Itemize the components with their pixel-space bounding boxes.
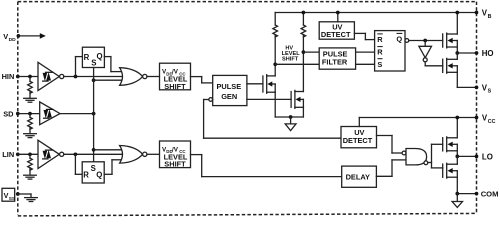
wire pulse gen output A: [247, 83, 263, 85]
svg-text:SD: SD: [3, 109, 14, 118]
svg-text:DETECT: DETECT: [321, 30, 351, 39]
node HIN resistor junction: [28, 75, 32, 79]
node left rail to pulse filter junction: [273, 62, 277, 66]
wire pulse filter to latch R2: [356, 51, 375, 53]
svg-text:SHIFT: SHIFT: [282, 57, 299, 63]
svg-text:S: S: [91, 164, 96, 173]
svg-text:LIN: LIN: [2, 150, 14, 159]
node common source junction: [289, 115, 293, 119]
node LIN pin dot: [16, 152, 20, 156]
wire HIN input: [18, 76, 38, 78]
wire NAND output to driver gates: [428, 144, 443, 168]
wire NOR1 output to level shift 1: [147, 76, 160, 78]
wire pulse filter to latch S: [356, 63, 375, 65]
svg-text:DETECT: DETECT: [343, 136, 373, 145]
ground VSS: [25, 198, 38, 202]
wire latch1 Q to NOR1: [104, 57, 124, 72]
wire VB rail: [275, 12, 476, 14]
wire right rail to pulse filter upper input: [303, 51, 319, 53]
NAND gate U10 low side: [402, 149, 428, 165]
ground SD: [24, 134, 37, 138]
hysteresis symbol U1: [42, 72, 53, 81]
svg-text:HIN: HIN: [2, 72, 15, 81]
wire VSS: [18, 194, 31, 197]
NOR gate U3 high side: [120, 68, 147, 86]
node SD pin dot: [16, 112, 20, 116]
wire UV detect low output to NAND: [377, 136, 403, 154]
ground level shift common: [285, 117, 296, 131]
svg-text:DD: DD: [9, 37, 17, 43]
label HV LEVEL SHIFT: [282, 45, 301, 62]
node COM junction: [455, 192, 459, 196]
node Q5 VCC junction: [455, 116, 459, 120]
wire LO: [457, 155, 476, 157]
pin VS dot: [475, 86, 479, 90]
wire level shift 2 to delay: [191, 155, 342, 177]
pin VCC label: [482, 114, 496, 125]
wire Q2 source to common: [302, 107, 304, 117]
wire Q5 drain to VCC: [456, 118, 458, 138]
resistor SD pulldown: [28, 114, 33, 134]
svg-text:SS: SS: [9, 196, 16, 202]
wire SD net to NOR1 input: [94, 79, 124, 81]
svg-text:GEN: GEN: [221, 92, 237, 101]
svg-text:Q: Q: [97, 52, 103, 61]
wire Q4 source to VS: [457, 72, 476, 87]
block UV detect low side: [341, 127, 377, 148]
transistor Q3 HO pull-up: [443, 33, 458, 48]
node HO junction: [455, 51, 459, 55]
pin VDD label: [3, 32, 16, 43]
wire pulse gen inhibit from UV detect low: [204, 100, 341, 139]
wire LIN buffer output row: [64, 153, 123, 155]
node SD resistor junction: [28, 112, 32, 116]
transistor Q1 HV level shift left: [263, 75, 275, 94]
wire Q5 source to LO: [456, 151, 458, 157]
wire Q6 drain to LO: [456, 156, 458, 164]
wire HO: [457, 52, 476, 54]
resistor HIN pulldown: [28, 77, 33, 98]
block pulse filter: [319, 48, 355, 69]
node LIN resistor junction: [28, 152, 32, 156]
node right rail to pulse filter junction: [302, 50, 306, 54]
schmitt buffer U1 HIN: [38, 62, 64, 90]
IC dashed border right: [476, 2, 478, 213]
svg-text:SHIFT: SHIFT: [164, 160, 186, 169]
svg-text:CC: CC: [488, 119, 496, 125]
node HIN buffer output junction: [74, 75, 78, 79]
svg-text:R: R: [377, 35, 383, 44]
latch U2 RSQ high side input: [82, 47, 104, 67]
wire NOR2 output to level shift 2: [147, 153, 160, 155]
svg-text:S: S: [377, 60, 382, 69]
svg-text:PULSE: PULSE: [217, 82, 242, 91]
node SD net to NOR1 junction: [92, 78, 96, 82]
wire latch2 Q to NOR2: [104, 160, 124, 175]
ground HIN: [24, 98, 37, 102]
node right rail VB junction: [302, 11, 306, 15]
wire LIN input: [18, 153, 38, 155]
svg-text:Q: Q: [396, 35, 402, 44]
svg-text:B: B: [488, 14, 492, 20]
wire level shift 1 to pulse gen: [191, 77, 213, 83]
svg-text:HO: HO: [482, 49, 494, 58]
block VDD/VCC level shift 2: [160, 141, 191, 169]
wire delay output to NAND: [376, 160, 406, 176]
node LIN buffer output junction: [74, 152, 78, 156]
pin VB label: [482, 9, 492, 20]
pin VS label: [482, 83, 492, 94]
wire SD net to NOR2 input: [94, 149, 124, 151]
hysteresis symbol U4: [43, 109, 54, 118]
latch U8 Qbar output bubble: [405, 39, 409, 43]
node VDD pin dot: [17, 34, 21, 38]
transistor Q6 LO pull-down: [443, 163, 458, 178]
svg-text:R: R: [377, 48, 383, 57]
schmitt buffer U4 SD: [40, 102, 60, 125]
wire Qbar row: [409, 40, 443, 42]
hysteresis symbol U5: [42, 150, 53, 159]
block pulse gen: [213, 75, 247, 105]
wire SD buffer output: [60, 113, 94, 115]
node Qbar junction: [423, 39, 427, 43]
node Q3 VB junction: [455, 11, 459, 15]
ground COM: [452, 194, 462, 208]
wire to latch1 R input: [76, 57, 83, 77]
node HIN pin dot: [16, 75, 20, 79]
wire UV detect low to VCC rail: [359, 118, 476, 127]
wire VDD arrow: [18, 33, 45, 39]
svg-text:DELAY: DELAY: [346, 172, 370, 181]
svg-text:R: R: [84, 53, 90, 62]
latch U6 RSQ low side input: [82, 162, 104, 183]
transistor Q4 HO pull-down: [443, 58, 458, 73]
pin LO dot: [475, 155, 479, 159]
wire to latch2 R input: [75, 154, 82, 174]
block VDD/VCC level shift 1: [160, 63, 191, 91]
svg-text:V: V: [3, 32, 8, 41]
ground LIN: [24, 175, 37, 179]
resistor LIN pulldown: [28, 154, 33, 175]
pin VCC dot: [475, 116, 479, 120]
node UV detect VB junction: [336, 11, 340, 15]
wire pulse gen output B: [247, 98, 291, 100]
wire Q1 source to common: [274, 92, 276, 117]
wire Q4 drain to HO: [456, 53, 458, 59]
block UV detect high side: [319, 22, 354, 39]
IC dashed border left: [17, 2, 19, 215]
wire HIN buffer output row: [64, 76, 123, 78]
pulse gen inverted input bubble: [209, 98, 213, 102]
svg-text:Q: Q: [96, 171, 102, 180]
wire Q6 source to COM: [457, 177, 476, 193]
wire UV detect high to latch R: [354, 33, 374, 39]
pin VSS label box: [2, 188, 16, 202]
svg-text:FILTER: FILTER: [322, 58, 348, 67]
wire SD input: [18, 113, 40, 115]
node VSS pin dot: [16, 192, 20, 196]
svg-text:COM: COM: [481, 190, 499, 199]
wire UV detect high to VB rail: [337, 13, 339, 22]
wire left rail to pulse filter lower input: [275, 63, 319, 65]
resistor R2 level shift pullup right: [301, 13, 306, 92]
pin VB dot: [475, 11, 479, 15]
IC dashed border top: [18, 1, 477, 3]
NOR gate U7 low side: [120, 146, 147, 164]
node SD net junction: [92, 112, 96, 116]
resistor R1 level shift pullup left: [273, 13, 278, 76]
svg-text:S: S: [488, 89, 492, 95]
svg-text:R: R: [83, 171, 89, 180]
block delay: [342, 166, 377, 187]
latch U8 RS high side: [375, 31, 405, 71]
transistor Q5 LO pull-up: [443, 137, 458, 152]
svg-text:LO: LO: [482, 152, 493, 161]
wire Q3 drain to VB: [456, 13, 458, 35]
wire Q3 source to HO: [456, 47, 458, 53]
schmitt buffer U5 LIN: [38, 140, 64, 168]
pin COM dot: [475, 192, 479, 196]
node LO junction: [455, 155, 459, 159]
wire SD net vertical: [93, 68, 95, 162]
node SD net to NOR2 junction: [92, 148, 96, 152]
wire level shift common source: [275, 116, 303, 118]
IC dashed border bottom: [18, 213, 477, 216]
svg-text:SHIFT: SHIFT: [164, 82, 186, 91]
transistor Q2 HV level shift right: [291, 90, 303, 108]
inverter U9 high side: [419, 41, 443, 66]
pin HO dot: [475, 51, 479, 55]
